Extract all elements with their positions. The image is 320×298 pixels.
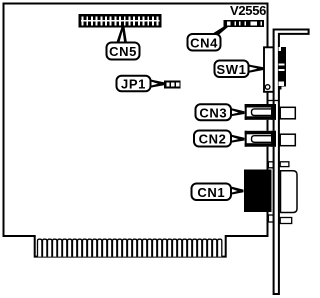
switch SW1 body: [264, 47, 274, 92]
callout CN5: [107, 43, 140, 60]
svg-text:CN5: CN5: [109, 44, 137, 59]
svg-text:CN3: CN3: [199, 105, 227, 120]
callout tail JP1: [150, 79, 165, 88]
svg-text:SW1: SW1: [217, 62, 247, 77]
connector CN2 body: [245, 131, 276, 147]
callout JP1: [117, 76, 151, 92]
callout tail CN2: [230, 134, 245, 143]
DB9 shell through bracket: [281, 171, 298, 213]
callout CN4: [188, 34, 221, 51]
DB9 screw tab bottom: [280, 218, 292, 224]
step line above CN3: [268, 100, 279, 102]
callout tail CN5: [116, 28, 127, 44]
callout tail CN4: [210, 27, 229, 36]
callout tail SW1: [248, 64, 264, 73]
callout SW1: [215, 61, 249, 78]
callout CN2: [194, 131, 231, 147]
connector CN5 pin header: [79, 14, 162, 28]
jumper JP1: [164, 81, 181, 89]
DB9 screw tab top: [280, 162, 289, 167]
mounting bracket: [274, 30, 309, 295]
connector CN3 jack through bracket: [280, 107, 295, 119]
callout tail CN3: [230, 108, 245, 117]
connector CN3 body: [245, 104, 276, 120]
connector CN1 body: [244, 170, 272, 213]
svg-text:CN4: CN4: [190, 35, 218, 50]
callout tail CN1: [230, 186, 244, 195]
connector CN4: [224, 20, 265, 27]
callout CN3: [196, 104, 232, 120]
svg-text:CN2: CN2: [199, 132, 227, 147]
svg-text:V2556: V2556: [230, 3, 266, 18]
svg-text:JP1: JP1: [121, 77, 146, 92]
bracket tab lower-left of CN1: [268, 215, 273, 222]
callout CN1: [192, 184, 232, 201]
svg-text:CN1: CN1: [197, 185, 225, 200]
card edge connector fingers: [38, 239, 222, 256]
PCB board outline: [4, 4, 268, 257]
bracket tab upper-left of CN1: [268, 162, 273, 168]
connector CN2 jack through bracket: [280, 134, 295, 146]
switch SW1 actuators through bracket: [278, 47, 286, 90]
